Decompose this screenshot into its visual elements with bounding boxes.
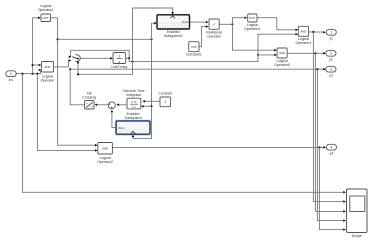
arrow into scope p1 (343, 191, 346, 194)
arrows (38, 12, 346, 231)
wire NOT2 out to AND4 top (257, 18, 296, 30)
node on In1 wire x23.5 (21, 73, 23, 75)
node AND5 out (314, 52, 316, 54)
sum junction (108, 102, 115, 109)
arrow into NOT2 (245, 16, 248, 19)
arrow into UnitDelay (110, 57, 113, 60)
wire long line to Out3 (70, 68, 324, 70)
wire riser to scope p3 (315, 53, 343, 211)
wire riser to scope p4 (317, 69, 343, 220)
wire to NOT2 (233, 18, 246, 25)
svg-text:y3: y3 (329, 73, 333, 77)
logical operator AND3 (97, 143, 113, 164)
svg-text:y4: y4 (330, 152, 334, 156)
wire to ES2 enable (133, 106, 152, 138)
node ES1 riser (150, 38, 152, 40)
wire UnitDelay long line (129, 34, 296, 61)
outport Out3 (326, 66, 336, 77)
node y69 (69, 68, 71, 70)
wire In1 to AND1 (16, 70, 41, 74)
wire NOT1 out down (51, 18, 96, 145)
svg-text:Constant1: Constant1 (186, 52, 202, 56)
node enable riser on AND1 line (132, 61, 134, 63)
wire feedback to switch input1 (70, 50, 129, 58)
svg-text:Constant: Constant (158, 92, 172, 96)
arrow into scope p3 (343, 210, 346, 213)
arrow into AND1 top (39, 64, 42, 67)
wire riser to scope p5 (319, 147, 343, 229)
wire AND4 out to Out1 (309, 31, 325, 33)
svg-text:4: 4 (331, 145, 333, 149)
arrow into ES1 enable (down) (171, 12, 174, 15)
outport Out2 (326, 50, 336, 61)
logical operator AND5 (274, 48, 290, 67)
arrow into scope p4 (343, 219, 346, 222)
logical operator NOT2 (244, 14, 260, 31)
wire NOT1 net to ES1 input riser (58, 38, 152, 40)
arrow into Out2 (323, 52, 326, 55)
svg-text:1: 1 (118, 55, 120, 59)
arrow into AND3 bottom (95, 149, 98, 152)
node DTI reset (150, 105, 152, 107)
arrow into NOT1 (38, 17, 41, 20)
svg-text:Crossing: Crossing (82, 96, 96, 100)
wire AND5 out to Out2 (287, 52, 324, 54)
arrow into ES2 enable (up) (132, 134, 135, 137)
switch block (72, 55, 80, 62)
node RO out (231, 23, 233, 25)
node riser AND1a (31, 64, 33, 66)
outport Out4 (326, 144, 336, 155)
arrow into sum bottom (up) (111, 110, 114, 113)
svg-text:Operator2: Operator2 (97, 160, 113, 164)
arrow into AND4 bottom (296, 33, 299, 36)
svg-text:AND: AND (300, 30, 306, 34)
svg-text:1: 1 (164, 100, 166, 104)
svg-text:z-1: z-1 (132, 105, 136, 109)
arrow into RO bottom (206, 25, 209, 28)
wire RelationalOperator out (219, 23, 232, 25)
arrow into scope p5 (343, 228, 346, 231)
svg-text:AND: AND (102, 147, 108, 151)
wire switch bottom to enable riser (78, 8, 173, 74)
enabled subsystem ES1 (157, 15, 190, 38)
svg-text:AND: AND (44, 65, 50, 69)
svg-text:Scope: Scope (352, 234, 362, 238)
relational operator block (206, 19, 222, 39)
wire sum to HitCrossing (96, 104, 108, 106)
svg-text:2: 2 (330, 52, 332, 56)
arrow into scope p2 (343, 200, 346, 203)
wire DTI out to sum (118, 104, 127, 106)
node UnitDelay out junction (128, 57, 130, 59)
unit delay block (111, 53, 127, 69)
arrow into AND4 top (296, 29, 299, 32)
arrow into sum right (left) (116, 104, 119, 107)
svg-text:Integrator: Integrator (126, 93, 142, 97)
arrow into HitCrossing (left) (95, 104, 98, 107)
wire riser up to ES1 In1 (152, 23, 156, 39)
node on In1 wire x37.4 (36, 73, 38, 75)
svg-text:1: 1 (10, 72, 12, 76)
wire HitCrossing out to long y69 line (70, 69, 84, 105)
svg-text:Operator1: Operator1 (38, 8, 54, 12)
wire riser to scope p2 (313, 32, 343, 202)
svg-text:Unit Delay: Unit Delay (111, 65, 127, 69)
node AND4 out (312, 31, 314, 33)
arrow into switch input1 (69, 56, 72, 59)
arrow into Out3 (323, 68, 326, 71)
constant block (158, 92, 172, 107)
node scope riser p4 (316, 68, 318, 70)
wire ES1 out to RelationalOperator (190, 21, 207, 23)
constant1 block (186, 42, 202, 57)
logical operator AND1 (41, 62, 56, 83)
wire In1 down to AND3 bottom (37, 74, 95, 151)
arrow into DTI top input (left) (142, 100, 145, 103)
svg-text:Operator: Operator (41, 79, 56, 83)
enabled subsystem ES2 (flipped) (115, 112, 150, 135)
svg-text:y1: y1 (329, 36, 333, 40)
wire In1 down to scope (23, 74, 344, 193)
wire branch AND5 bottom (258, 54, 275, 56)
wire branch to AND1 top input (33, 64, 40, 66)
outport Out1 (326, 29, 336, 40)
svg-text:Subsystem1: Subsystem1 (164, 34, 183, 38)
wire Constant to DTI (144, 100, 160, 102)
node on In1 wire x32.6 (31, 73, 33, 75)
svg-text:Operator5: Operator5 (274, 63, 290, 67)
svg-text:3: 3 (330, 67, 332, 71)
arrow into AND5 bottom (274, 54, 277, 57)
wire ES2 out to sum bottom (112, 110, 116, 127)
wire riser down to DTI reset (143, 39, 151, 106)
arrow into AND5 top (274, 49, 277, 52)
node on y74 wire (77, 73, 79, 75)
svg-text:Out1: Out1 (182, 20, 189, 24)
arrow into AND1 bottom (39, 69, 42, 72)
discrete-time integrator block (123, 89, 145, 109)
svg-text:NOT: NOT (249, 16, 255, 20)
svg-text:Operator3: Operator3 (244, 27, 260, 31)
wire Constant1 to RelationalOperator (199, 27, 206, 47)
svg-text:AND: AND (279, 51, 285, 55)
hit crossing block (82, 92, 96, 109)
arrow into ES1 In1 (154, 22, 157, 25)
svg-text:Subsystem: Subsystem (124, 116, 141, 120)
wire to AND5 top (233, 24, 275, 50)
arrow into Out1 (323, 31, 326, 34)
svg-text:NOT: NOT (43, 16, 49, 20)
arrow into AND3 top (95, 144, 98, 147)
svg-text:Out1: Out1 (118, 126, 125, 130)
arrow into DTI reset (left) (141, 105, 144, 108)
svg-text:z: z (118, 60, 120, 64)
arrow into switch input2 (69, 59, 72, 62)
svg-text:y2: y2 (329, 58, 333, 62)
wire AND1 out to switch control (54, 60, 70, 67)
svg-text:1: 1 (330, 31, 332, 35)
svg-text:Operator4: Operator4 (296, 41, 312, 45)
wire UnitDelay out (126, 57, 130, 59)
logical operator AND4 (296, 26, 312, 45)
svg-text:Operator: Operator (207, 35, 222, 39)
node switch bottom (77, 62, 79, 64)
scope block (347, 189, 368, 238)
svg-text:0.05: 0.05 (191, 45, 197, 49)
wire switch out to UnitDelay (81, 57, 111, 59)
node NOT1 net y39 (57, 38, 59, 40)
arrow into RO top (206, 21, 209, 24)
wire riser to NOT1 and AND1 top (33, 18, 40, 74)
node AND5b (257, 54, 259, 56)
node AND3 out (318, 146, 320, 148)
inport In1 (6, 71, 16, 82)
svg-text:In1: In1 (9, 78, 14, 82)
svg-text:K Ts: K Ts (131, 100, 137, 104)
wire AND3 out to Out4 (112, 146, 324, 148)
logical operator NOT1 (38, 4, 54, 21)
arrow into Out4 (323, 146, 326, 149)
